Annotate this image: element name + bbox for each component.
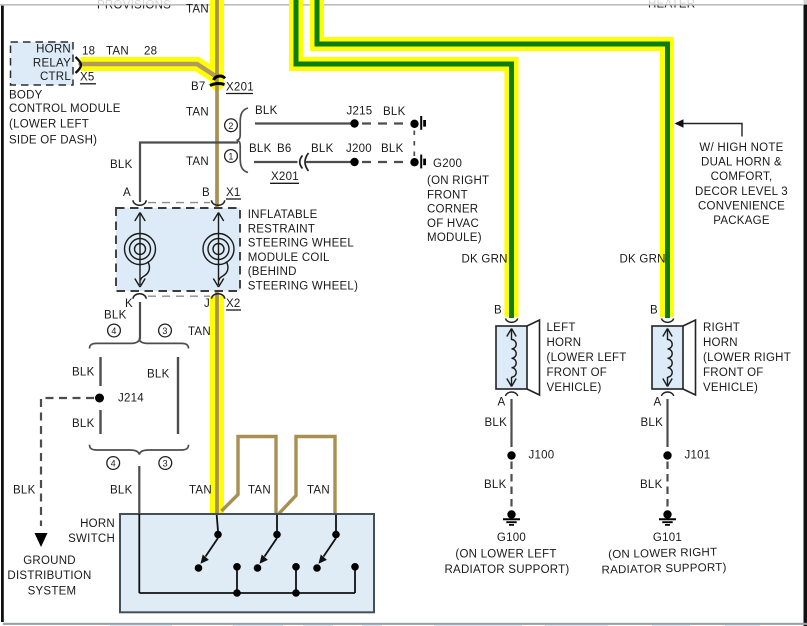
svg-text:K: K: [125, 298, 133, 310]
horn body: [652, 326, 683, 389]
svg-text:SIDE OF DASH): SIDE OF DASH): [9, 134, 97, 146]
contact dots: [195, 531, 359, 597]
svg-text:X1: X1: [226, 187, 241, 199]
svg-text:J215: J215: [347, 106, 373, 118]
svg-text:G100: G100: [497, 532, 526, 544]
splice J215: [350, 119, 358, 127]
svg-text:BLK: BLK: [255, 105, 278, 117]
svg-text:B: B: [494, 305, 502, 317]
label GROUND DISTRIBUTION SYSTEM: [7, 555, 91, 597]
ground rail: [139, 592, 355, 594]
svg-text:J200: J200: [346, 143, 372, 155]
svg-text:(ON LOWER LEFT: (ON LOWER LEFT: [455, 549, 556, 561]
label X201 inline (underlined): [270, 171, 299, 183]
svg-text:CORNER: CORNER: [427, 204, 478, 216]
cup A horn: [662, 392, 674, 396]
svg-text:BLK: BLK: [381, 143, 404, 155]
svg-text:BLK: BLK: [485, 417, 508, 429]
svg-text:J101: J101: [685, 450, 711, 462]
cup A horn: [506, 392, 518, 396]
svg-text:BLK: BLK: [640, 479, 663, 491]
svg-text:HORN: HORN: [547, 337, 582, 349]
svg-text:TAN: TAN: [248, 485, 271, 497]
top fade wash: [0, 0, 807, 5]
wire: K down to brace: [139, 302, 141, 340]
wire: tan from horn relay, bends to X201: [81, 64, 216, 76]
svg-text:FRONT: FRONT: [427, 189, 468, 201]
svg-text:DK GRN: DK GRN: [462, 254, 508, 266]
top splice brace: [90, 340, 189, 349]
svg-text:BODY: BODY: [9, 90, 43, 102]
svg-text:18: 18: [82, 46, 95, 58]
wire BLK down: [510, 399, 512, 447]
svg-text:BLK: BLK: [110, 159, 133, 171]
cup A (top): [133, 200, 146, 205]
svg-text:J214: J214: [118, 393, 144, 405]
fixed contact stubs: [236, 570, 238, 593]
labels G100: [444, 532, 569, 576]
label X5 (underlined): [80, 72, 96, 84]
wire: BLK into horn switch: [138, 466, 140, 515]
svg-text:X201: X201: [271, 171, 299, 183]
svg-text:DECOR LEVEL 3: DECOR LEVEL 3: [695, 186, 788, 198]
svg-text:DK GRN: DK GRN: [620, 254, 666, 266]
svg-text:3: 3: [162, 326, 167, 336]
svg-text:STEERING WHEEL): STEERING WHEEL): [248, 281, 358, 293]
label G200 + location: [427, 158, 489, 244]
wire: branch 1 solid to X201: [254, 161, 298, 163]
svg-text:4: 4: [111, 459, 116, 469]
dashed link between G200 terminals: [413, 131, 415, 158]
cup B horn: [506, 318, 518, 322]
note W/ HIGH NOTE ...: [695, 142, 788, 227]
horn coil: [507, 329, 516, 387]
ground G100: [507, 510, 515, 518]
svg-text:RESTRAINT: RESTRAINT: [248, 223, 315, 235]
label INFLATABLE RESTRAINT ...: [248, 209, 358, 293]
label LEFT HORN ...: [547, 322, 627, 394]
svg-text:BLK: BLK: [311, 143, 334, 155]
switch arm 2: [265, 538, 278, 557]
svg-text:VEHICLE): VEHICLE): [703, 382, 758, 394]
connector X2 dashed link: [148, 295, 210, 297]
svg-text:RELAY: RELAY: [33, 58, 71, 70]
wire: branch 3 vertical: [177, 357, 179, 434]
RIGHT HORN: [601, 305, 791, 577]
circled 3 (top): [159, 324, 172, 337]
svg-text:SYSTEM: SYSTEM: [28, 585, 77, 597]
svg-text:B7: B7: [191, 81, 206, 93]
wire: BLK branch horizontal to brace: [140, 143, 238, 203]
svg-text:TAN: TAN: [106, 46, 129, 58]
switch arm 1: [206, 538, 219, 557]
circled 4 (top): [108, 324, 121, 337]
switch arm 3: [324, 538, 337, 557]
svg-text:CONVENIENCE: CONVENIENCE: [698, 200, 785, 212]
svg-text:(LOWER RIGHT: (LOWER RIGHT: [703, 352, 791, 364]
svg-text:(ON RIGHT: (ON RIGHT: [427, 175, 489, 187]
wire: branch 2 solid to J215: [255, 122, 354, 124]
horn body: [496, 326, 527, 389]
wire BLK down: [666, 399, 668, 447]
arm arrowheads: [201, 555, 209, 564]
wire: tan loop 1 (horn switch): [222, 437, 277, 514]
bottom frame line: [3, 623, 807, 625]
svg-text:BLK: BLK: [110, 485, 133, 497]
svg-text:DUAL HORN &: DUAL HORN &: [701, 157, 782, 169]
svg-text:G101: G101: [653, 532, 682, 544]
svg-text:(LOWER LEFT: (LOWER LEFT: [547, 352, 627, 364]
svg-text:INFLATABLE: INFLATABLE: [248, 209, 318, 221]
connector X1 dashed link: [148, 202, 210, 204]
switch contacts and rail: [139, 514, 355, 593]
wire: tan loop 2 (horn switch): [279, 437, 335, 514]
svg-text:MODULE COIL: MODULE COIL: [248, 252, 330, 264]
label X2 (underlined): [226, 298, 241, 310]
wire: branch 4 upper segment: [99, 357, 101, 386]
ground G101: [663, 510, 671, 518]
horn flare: [683, 320, 696, 395]
circled 1: [225, 150, 238, 163]
svg-text:J: J: [204, 298, 210, 310]
svg-text:TAN: TAN: [186, 3, 209, 15]
svg-text:TAN: TAN: [186, 107, 209, 119]
svg-text:RADIATOR SUPPORT): RADIATOR SUPPORT): [444, 564, 569, 576]
LEFT HORN: [444, 305, 626, 577]
pin cup at relay output: [76, 57, 82, 73]
yellow highlight: lower vertical tan wire: [210, 296, 224, 513]
svg-text:VEHICLE): VEHICLE): [547, 382, 602, 394]
label BODY CONTROL MODULE: [9, 90, 121, 147]
label X201 (underlined): [226, 82, 254, 94]
svg-text:(BEHIND: (BEHIND: [248, 266, 297, 278]
svg-text:J100: J100: [529, 450, 555, 462]
svg-text:4: 4: [111, 326, 116, 336]
horn switch box: [120, 514, 374, 612]
svg-text:SWITCH: SWITCH: [68, 533, 115, 545]
svg-text:HORN: HORN: [80, 518, 115, 530]
svg-text:2: 2: [228, 121, 233, 131]
svg-text:W/ HIGH NOTE: W/ HIGH NOTE: [699, 142, 783, 154]
svg-text:TAN: TAN: [189, 485, 212, 497]
wire: tan vertical main (to horn switch): [215, 0, 219, 513]
svg-text:TAN: TAN: [186, 156, 209, 168]
wire: green A vertical+horizontal to right horn: [317, 0, 668, 318]
svg-text:HORN: HORN: [703, 337, 738, 349]
bottom splice brace: [90, 445, 189, 455]
circled 2: [225, 119, 238, 132]
svg-text:B: B: [202, 187, 210, 199]
cup J (bottom): [212, 294, 225, 299]
G200 terminal lower: [410, 155, 424, 169]
svg-text:BLK: BLK: [147, 369, 170, 381]
horn flare: [527, 320, 540, 395]
arrowhead ground distribution: [35, 533, 48, 547]
bottom cut-off fragments: [110, 625, 760, 626]
G200 terminal upper: [410, 116, 424, 130]
dashed BLK: [666, 462, 668, 509]
splice J101: [663, 451, 671, 459]
cup B (top): [212, 200, 225, 205]
svg-text:A: A: [498, 397, 506, 409]
label X1 (underlined): [226, 187, 241, 199]
svg-text:LEFT: LEFT: [547, 322, 576, 334]
horn coil: [663, 329, 672, 387]
svg-text:B: B: [650, 305, 658, 317]
svg-text:BLK: BLK: [249, 143, 272, 155]
splice J200: [350, 158, 358, 166]
svg-text:HORN: HORN: [36, 44, 71, 56]
svg-text:BLK: BLK: [72, 418, 95, 430]
circled 4 (bottom): [107, 457, 120, 470]
label RIGHT HORN ...: [703, 322, 791, 394]
svg-text:TAN: TAN: [188, 326, 211, 338]
top frame line: [0, 4, 803, 6]
svg-text:X5: X5: [80, 72, 95, 84]
wire: green B vertical+horizontal to left horn: [296, 0, 512, 318]
svg-text:G200: G200: [433, 158, 462, 170]
cup K (bottom): [133, 294, 146, 299]
yellow highlight: green wire B (left horn): [296, 0, 512, 317]
label HORN SWITCH: [68, 518, 115, 545]
svg-text:(LOWER LEFT: (LOWER LEFT: [9, 119, 89, 131]
svg-text:X2: X2: [226, 298, 241, 310]
svg-text:GROUND: GROUND: [23, 555, 76, 567]
brace for branches 1 and 2: [237, 108, 248, 173]
svg-text:CONTROL MODULE: CONTROL MODULE: [9, 103, 121, 115]
svg-text:BLK: BLK: [484, 479, 507, 491]
cup B horn: [662, 318, 674, 322]
wire: dashed to ground distribution: [41, 398, 94, 526]
coil module box: [116, 208, 240, 291]
svg-text:A: A: [123, 187, 131, 199]
right frame edge: [804, 0, 807, 626]
svg-text:BLK: BLK: [13, 485, 36, 497]
svg-text:DISTRIBUTION: DISTRIBUTION: [7, 570, 91, 582]
cut-off top labels: [97, 0, 695, 11]
svg-text:FRONT OF: FRONT OF: [703, 367, 764, 379]
wire: branch 1 solid to J200: [306, 161, 355, 163]
svg-text:RIGHT: RIGHT: [703, 322, 740, 334]
svg-text:MODULE): MODULE): [427, 232, 482, 244]
svg-text:BLK: BLK: [104, 310, 127, 322]
coil 2 (right): [203, 213, 234, 288]
svg-text:1: 1: [228, 152, 233, 162]
splice J214: [95, 394, 104, 403]
connector X201 B7 symbol: [210, 76, 225, 85]
svg-text:COMFORT,: COMFORT,: [711, 171, 773, 183]
yellow highlight: relay horizontal wire: [81, 64, 216, 76]
wire: branch 2 dashed: [362, 122, 410, 124]
svg-text:STEERING WHEEL: STEERING WHEEL: [248, 238, 355, 250]
wire: branch 1 dashed: [362, 161, 410, 163]
svg-text:FRONT OF: FRONT OF: [547, 367, 608, 379]
svg-text:A: A: [654, 397, 662, 409]
BCM: horn relay ctrl box: [11, 42, 74, 85]
yellow highlight: green wire A (right horn): [317, 0, 667, 317]
svg-text:B6: B6: [277, 143, 292, 155]
yellow highlight tip at X201: [208, 84, 226, 93]
svg-text:OF HVAC: OF HVAC: [427, 218, 479, 230]
note pointer arrow: [676, 124, 742, 137]
svg-text:PACKAGE: PACKAGE: [713, 215, 770, 227]
splice J100: [507, 451, 515, 459]
svg-text:BLK: BLK: [641, 417, 664, 429]
svg-text:BLK: BLK: [72, 367, 95, 379]
wire: branch 4 lower segment: [99, 410, 101, 434]
yellow highlight: top vertical tan wire: [210, 0, 224, 86]
labels G101: [601, 532, 727, 577]
svg-text:CTRL: CTRL: [40, 71, 71, 83]
connector X201 inline ((: [300, 153, 309, 171]
entry links: [138, 514, 140, 593]
dashed BLK: [510, 462, 512, 509]
svg-text:(ON LOWER RIGHT: (ON LOWER RIGHT: [608, 547, 717, 561]
svg-text:28: 28: [144, 46, 157, 58]
svg-text:BLK: BLK: [383, 106, 406, 118]
svg-text:X201: X201: [226, 82, 254, 94]
left frame border: [1, 6, 4, 622]
svg-text:3: 3: [163, 459, 168, 469]
coil 1 (left): [125, 213, 156, 288]
circled 3 (bottom): [159, 457, 172, 470]
svg-text:TAN: TAN: [307, 485, 330, 497]
